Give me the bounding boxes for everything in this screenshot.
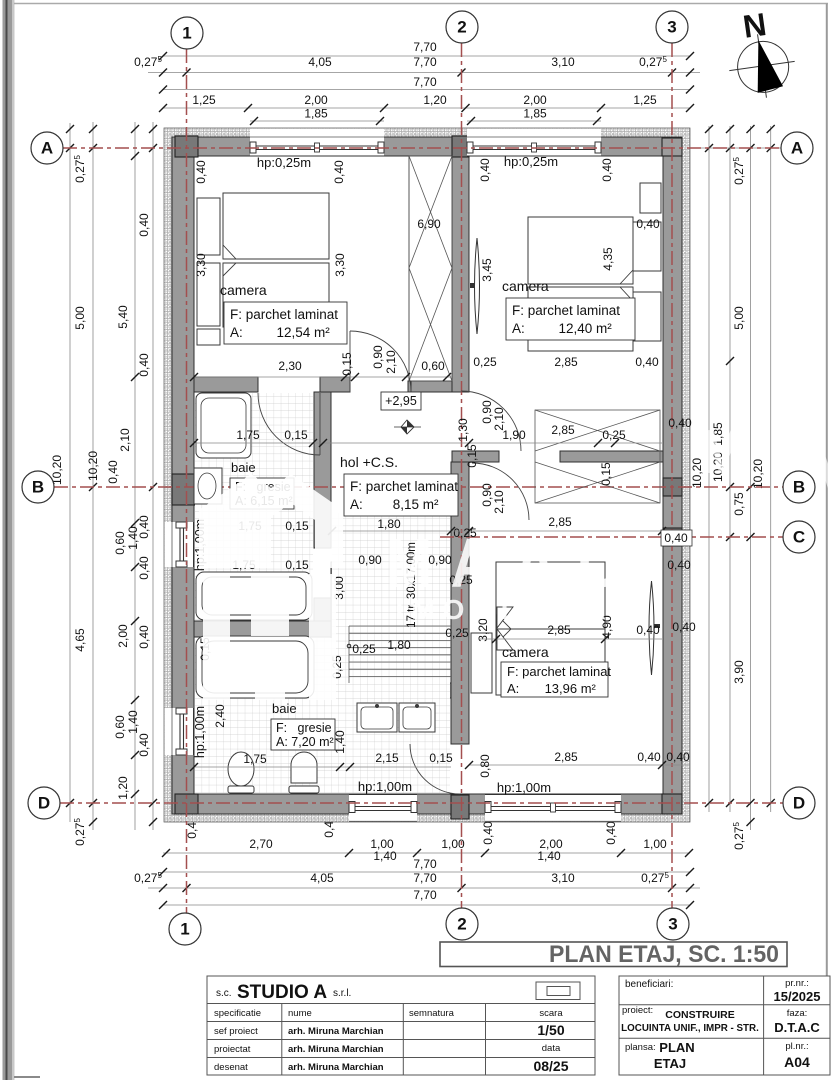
svg-text:0,40: 0,40: [668, 416, 692, 430]
door camera2 arc: [461, 391, 521, 451]
title block right table: [619, 976, 830, 1075]
svg-text:7,70: 7,70: [413, 871, 437, 885]
bed camera1 lower: [223, 263, 329, 327]
svg-text:arh. Miruna Marchian: arh. Miruna Marchian: [288, 1026, 384, 1037]
svg-text:1,25: 1,25: [192, 93, 216, 107]
svg-text:0,40: 0,40: [478, 158, 492, 182]
svg-text:4,05: 4,05: [310, 871, 334, 885]
svg-text:2,30: 2,30: [278, 359, 302, 373]
right dimension columns: [708, 126, 710, 812]
sinks baie2: [357, 703, 397, 732]
svg-text:1,75: 1,75: [236, 428, 260, 442]
svg-text:F: parchet laminat: F: parchet laminat: [350, 479, 458, 494]
svg-text:A04: A04: [784, 1054, 810, 1070]
svg-text:hp:0,25m: hp:0,25m: [257, 155, 311, 170]
left dimension columns: [69, 123, 71, 822]
svg-text:pr.nr.:: pr.nr.:: [785, 978, 809, 989]
svg-text:B: B: [793, 478, 805, 497]
svg-text:0,40: 0,40: [637, 750, 661, 764]
svg-text:desenat: desenat: [214, 1062, 248, 1073]
svg-text:0,40: 0,40: [636, 217, 660, 231]
svg-text:0,15: 0,15: [340, 352, 354, 376]
svg-text:pl.nr.:: pl.nr.:: [785, 1041, 808, 1052]
svg-text:1/50: 1/50: [537, 1022, 564, 1038]
svg-text:7,70: 7,70: [413, 40, 437, 54]
svg-text:0,25: 0,25: [602, 428, 626, 442]
open leaf camera2: [475, 238, 480, 334]
bathtub baie1: [196, 572, 312, 620]
svg-text:0,40: 0,40: [636, 623, 660, 637]
svg-text:hol +C.S.: hol +C.S.: [340, 454, 398, 470]
axis C: [440, 536, 783, 538]
window bottom W3: [349, 795, 417, 822]
title PLAN ETAJ: [440, 942, 787, 967]
svg-text:0,40: 0,40: [664, 531, 688, 545]
svg-text:F: parchet laminat: F: parchet laminat: [512, 303, 620, 318]
window top W2: [467, 129, 601, 156]
shower baie1: [196, 393, 251, 458]
svg-text:2,85: 2,85: [551, 423, 575, 437]
interior wall: stair bottom stub: [408, 381, 452, 392]
svg-text:5,00: 5,00: [73, 306, 87, 330]
svg-text:plansa:: plansa:: [625, 1042, 656, 1053]
window bottom W4: [485, 795, 621, 822]
svg-text:C: C: [578, 524, 620, 602]
svg-text:0,90: 0,90: [358, 553, 382, 567]
svg-text:0,40: 0,40: [600, 158, 614, 182]
svg-text:2,10: 2,10: [492, 490, 506, 514]
svg-text:0,25: 0,25: [352, 642, 376, 656]
toilet baie2: [228, 752, 254, 786]
axis A: [63, 147, 781, 149]
svg-text:A: 8,15 m²: A: 8,15 m²: [350, 497, 439, 512]
svg-text:0,15: 0,15: [465, 444, 479, 468]
svg-text:hp:1,00m: hp:1,00m: [497, 780, 551, 795]
door baie1 arc: [258, 393, 320, 455]
svg-text:0,40: 0,40: [137, 625, 151, 649]
bed camera2 lower: [528, 287, 633, 351]
interior wall: camera1 south segments: [194, 377, 258, 392]
svg-text:0,15: 0,15: [284, 428, 308, 442]
svg-text:proiectat: proiectat: [214, 1044, 251, 1055]
svg-text:STUDIO A: STUDIO A: [237, 982, 327, 1003]
svg-text:2,10: 2,10: [384, 350, 398, 374]
svg-text:2: 2: [457, 915, 466, 934]
svg-text:ETAJ: ETAJ: [654, 1056, 686, 1071]
svg-text:M: M: [700, 418, 745, 487]
svg-text:sef proiect: sef proiect: [214, 1026, 258, 1037]
svg-text:F: parchet laminat: F: parchet laminat: [230, 307, 338, 322]
bed camera1 upper: [223, 193, 329, 259]
svg-text:1,00: 1,00: [643, 837, 667, 851]
svg-text:1,75: 1,75: [243, 752, 267, 766]
axis D: [60, 802, 783, 804]
svg-text:3,30: 3,30: [194, 253, 208, 277]
svg-text:3: 3: [668, 915, 677, 934]
svg-text:C: C: [793, 528, 805, 547]
grid bubbles: [171, 17, 203, 49]
open leaf camera3: [649, 581, 654, 675]
svg-text:s.c.: s.c.: [216, 988, 232, 999]
svg-text:0,40: 0,40: [672, 620, 696, 634]
svg-text:arh. Miruna Marchian: arh. Miruna Marchian: [288, 1062, 384, 1073]
svg-text:camera: camera: [502, 644, 549, 660]
svg-text:3: 3: [667, 18, 676, 37]
nightstand camera3: [471, 633, 492, 693]
svg-text:1,40: 1,40: [537, 849, 561, 863]
interior wall: landing south wall: [349, 683, 451, 698]
svg-text:4,35: 4,35: [601, 247, 615, 271]
svg-text:hp:1,00m: hp:1,00m: [358, 779, 412, 794]
svg-text:0,25: 0,25: [445, 626, 469, 640]
svg-text:A: A: [791, 139, 803, 158]
svg-text:2,00: 2,00: [523, 93, 547, 107]
svg-text:faza:: faza:: [787, 1008, 808, 1019]
nightstand camera1: [197, 329, 220, 345]
interior wall: hol/void thin wall: [452, 451, 499, 462]
svg-text:M: M: [386, 524, 432, 602]
door camera3/hall arc: [472, 463, 529, 520]
svg-text:specificatie: specificatie: [214, 1008, 261, 1019]
interior wall: camera3 west wall: [451, 462, 469, 744]
door camera3 wedges: [497, 607, 513, 628]
svg-text:arh. Miruna Marchian: arh. Miruna Marchian: [288, 1044, 384, 1055]
svg-text:F: parchet laminat: F: parchet laminat: [507, 664, 611, 679]
svg-text:0,15: 0,15: [599, 462, 613, 486]
svg-text:camera: camera: [220, 282, 267, 298]
svg-text:0,40: 0,40: [137, 556, 151, 580]
svg-text:1,20: 1,20: [423, 93, 447, 107]
svg-text:0,40: 0,40: [332, 160, 346, 184]
svg-text:1: 1: [182, 24, 191, 43]
svg-text:5,00: 5,00: [732, 306, 746, 330]
svg-text:LOCUINTA UNIF., IMPR - STR.: LOCUINTA UNIF., IMPR - STR.: [621, 1023, 759, 1034]
tiled floor baie1: [195, 393, 313, 620]
svg-text:B: B: [32, 478, 44, 497]
svg-text:4,65: 4,65: [73, 628, 87, 652]
void X right (gol casa scarii): [535, 410, 660, 503]
axis 2: [461, 43, 463, 908]
svg-text:0,40: 0,40: [635, 355, 659, 369]
exterior walls gray: [172, 137, 682, 156]
svg-text:0,40: 0,40: [106, 460, 120, 484]
interior wall: dormitor/baie2 wall: [194, 621, 331, 637]
window left L1: [165, 522, 194, 567]
axis B: [54, 486, 783, 488]
tiled floor baie2: [195, 638, 450, 793]
svg-text:0,75: 0,75: [732, 492, 746, 516]
svg-text:3,30: 3,30: [333, 253, 347, 277]
svg-text:s.r.l.: s.r.l.: [333, 988, 351, 999]
svg-text:1: 1: [180, 920, 189, 939]
bathtub baie2: [196, 636, 314, 698]
svg-text:10,20: 10,20: [86, 451, 100, 481]
svg-text:A: A: [41, 139, 53, 158]
svg-text:6,90: 6,90: [417, 217, 441, 231]
svg-text:7,70: 7,70: [413, 888, 437, 902]
svg-text:0,60: 0,60: [421, 359, 445, 373]
svg-text:0,40: 0,40: [481, 821, 495, 845]
svg-text:2,00: 2,00: [116, 624, 130, 648]
svg-text:1,40: 1,40: [333, 730, 347, 754]
svg-text:2,70: 2,70: [249, 837, 273, 851]
insulation hatch band: [164, 128, 690, 822]
svg-text:0,25: 0,25: [473, 355, 497, 369]
svg-text:semnatura: semnatura: [409, 1008, 455, 1019]
svg-text:10,20: 10,20: [751, 459, 765, 489]
svg-text:1,25: 1,25: [633, 93, 657, 107]
svg-text:A: 12,40 m²: A: 12,40 m²: [512, 321, 612, 336]
svg-text:PLAN: PLAN: [659, 1040, 694, 1055]
svg-text:beneficiari:: beneficiari:: [625, 979, 673, 990]
nightstand camera2: [640, 183, 661, 213]
bed camera3: [496, 562, 605, 695]
page border top and right: [14, 3, 828, 5]
svg-text:D.T.A.C: D.T.A.C: [774, 1020, 820, 1035]
svg-text:camera: camera: [502, 278, 549, 294]
svg-text:1,80: 1,80: [387, 638, 411, 652]
watermark MAAC logo: [199, 474, 343, 700]
svg-text:0,40: 0,40: [137, 515, 151, 539]
svg-text:2,85: 2,85: [554, 750, 578, 764]
svg-text:0,80: 0,80: [478, 754, 492, 778]
svg-text:0,40: 0,40: [666, 750, 690, 764]
svg-text:PLAN ETAJ, SC. 1:50: PLAN ETAJ, SC. 1:50: [549, 941, 779, 968]
svg-text:proiect:: proiect:: [622, 1005, 653, 1016]
columns at grid intersections: [175, 136, 198, 157]
svg-text:15/2025: 15/2025: [774, 989, 821, 1004]
svg-text:0,40: 0,40: [667, 558, 691, 572]
interior wall: dormitor east wall: [331, 562, 349, 683]
svg-text:hp:1,00m: hp:1,00m: [193, 706, 207, 758]
svg-text:1,30: 1,30: [456, 418, 470, 442]
sink baie1: [194, 468, 222, 504]
svg-text:5,40: 5,40: [116, 305, 130, 329]
svg-text:A: 7,20 m²: A: 7,20 m²: [276, 735, 334, 749]
axis 1: [186, 49, 188, 913]
svg-text:2: 2: [457, 18, 466, 37]
svg-text:A: A: [514, 524, 557, 602]
svg-text:2,85: 2,85: [554, 355, 578, 369]
door baie2 arc: [410, 744, 460, 794]
door camera1 arc: [350, 331, 411, 392]
svg-text:0,60: 0,60: [113, 715, 127, 739]
svg-text:F: gresie: F: gresie: [276, 721, 332, 735]
svg-text:baie: baie: [272, 701, 297, 716]
svg-text:3,45: 3,45: [480, 258, 494, 282]
svg-text:0,40: 0,40: [137, 353, 151, 377]
svg-text:D: D: [793, 794, 805, 813]
svg-text:A: A: [451, 524, 494, 602]
svg-text:0,60: 0,60: [113, 531, 127, 555]
svg-text:7,70: 7,70: [413, 857, 437, 871]
svg-text:hp:0,25m: hp:0,25m: [504, 154, 558, 169]
north arrow: [725, 30, 799, 103]
svg-text:7,70: 7,70: [413, 75, 437, 89]
svg-text:7,70: 7,70: [413, 55, 437, 69]
svg-text:2,40: 2,40: [213, 704, 227, 728]
svg-text:nume: nume: [288, 1008, 312, 1019]
svg-text:1,40: 1,40: [126, 710, 140, 734]
svg-text:2,00: 2,00: [304, 93, 328, 107]
svg-text:3,10: 3,10: [551, 55, 575, 69]
svg-text:data: data: [542, 1043, 561, 1054]
interior wall: stair east wall (axis 2): [452, 156, 469, 392]
stair lower flight treads: [349, 625, 451, 627]
svg-text:1,85: 1,85: [304, 107, 328, 121]
svg-text:1,20: 1,20: [116, 776, 130, 800]
svg-text:+2,95: +2,95: [385, 394, 417, 408]
svg-text:2,85: 2,85: [547, 623, 571, 637]
svg-text:A: 12,54 m²: A: 12,54 m²: [230, 325, 330, 340]
svg-text:0,15: 0,15: [285, 519, 309, 533]
svg-text:2,15: 2,15: [375, 751, 399, 765]
axis 3: [671, 43, 673, 908]
title block left table: [207, 976, 595, 1075]
svg-text:4,05: 4,05: [308, 55, 332, 69]
svg-text:IMOBILIARE: IMOBILIARE: [396, 594, 641, 625]
svg-text:A: 13,96 m²: A: 13,96 m²: [507, 681, 597, 696]
window top W1: [250, 129, 384, 156]
svg-text:scara: scara: [539, 1008, 563, 1019]
tiled floor stair landing: [332, 513, 450, 683]
svg-text:0,15: 0,15: [429, 751, 453, 765]
bed camera2 upper: [528, 217, 633, 284]
svg-text:3,90: 3,90: [732, 660, 746, 684]
svg-text:0,40: 0,40: [194, 160, 208, 184]
svg-text:0,15: 0,15: [285, 558, 309, 572]
svg-text:1,85: 1,85: [523, 107, 547, 121]
level marker +2,95: [381, 392, 421, 410]
stair upper flight void with X: [409, 156, 452, 381]
bidet baie2: [291, 752, 317, 783]
svg-text:2,10: 2,10: [492, 407, 506, 431]
svg-text:08/25: 08/25: [533, 1058, 568, 1074]
svg-text:0,40: 0,40: [137, 213, 151, 237]
svg-text:CONSTRUIRE: CONSTRUIRE: [665, 1009, 734, 1021]
svg-text:baie: baie: [231, 460, 256, 475]
svg-text:D: D: [38, 794, 50, 813]
svg-text:0,90: 0,90: [371, 345, 385, 369]
svg-text:3,10: 3,10: [551, 871, 575, 885]
left page scan strip: [3, 0, 15, 1080]
svg-text:1,40: 1,40: [373, 849, 397, 863]
svg-text:2,10: 2,10: [118, 428, 132, 452]
interior wall: baie1/hol wall: [314, 392, 331, 548]
svg-text:0,40: 0,40: [137, 733, 151, 757]
svg-text:0,40: 0,40: [604, 821, 618, 845]
window left L2: [165, 708, 194, 755]
